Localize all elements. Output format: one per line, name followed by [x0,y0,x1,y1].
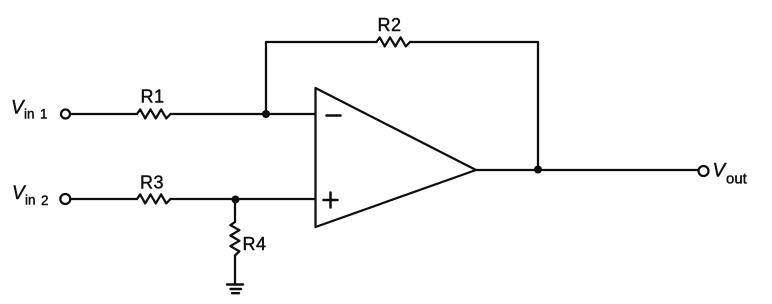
resistor R3 [137,194,171,203]
op-amp non-inverting pin (+) [324,193,338,208]
op-amp U1 [316,88,477,227]
terminal Vin2 [60,194,70,204]
op-amp inverting pin (-) [327,114,341,117]
node junction at R4 tap [232,196,240,204]
wire feedback right vertical [537,42,539,170]
node junction at inverting input [262,110,270,118]
wire feedback top right segment [410,41,538,43]
label Vin2 [12,183,49,208]
node junction at output [534,166,542,174]
svg-text:in: in [25,193,36,208]
wire feedback left vertical [265,42,267,114]
wire R3 to op-amp non-inverting input [171,198,315,200]
resistor R4 [230,222,239,256]
wire R1 to op-amp inverting input [171,113,316,115]
svg-text:in: in [24,107,35,122]
terminal Vout [699,166,709,176]
wire output [476,169,699,171]
ground [227,285,243,294]
svg-text:R1: R1 [141,87,165,107]
wire Vin2 to R3 [70,198,137,200]
wire R4 to ground [234,256,236,285]
wire junction down to R4 [234,200,236,223]
svg-text:2: 2 [41,193,49,208]
svg-text:out: out [726,170,748,187]
label Vout [713,161,748,188]
svg-text:R3: R3 [140,172,164,192]
wire feedback top left segment [266,41,377,43]
resistor R1 [137,109,171,118]
wire Vin1 to R1 [70,113,137,115]
resistor R2 [377,37,411,46]
svg-text:1: 1 [40,107,48,122]
svg-text:R2: R2 [378,15,402,35]
svg-text:R4: R4 [243,234,267,254]
terminal Vin1 [61,110,70,119]
label Vin1 [11,98,48,122]
